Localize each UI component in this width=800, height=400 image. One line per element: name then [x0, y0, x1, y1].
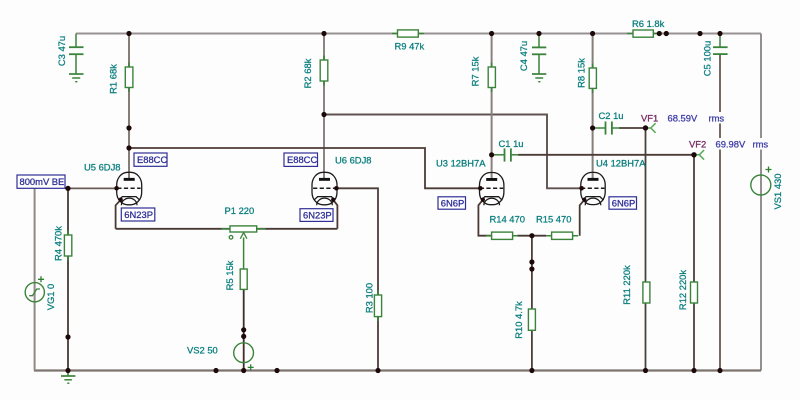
- resistor R3: [374, 291, 381, 322]
- wire cathode bus U5 side to P1: [116, 228, 230, 230]
- junction R6 right a: [657, 31, 662, 36]
- pin U3 cathode: [481, 198, 485, 202]
- wire left column input (box to VG1 to bus): [34, 188, 36, 370]
- junction wiper column b: [241, 334, 246, 339]
- junction bus left of VS2: [213, 368, 218, 373]
- svg-text:rms: rms: [709, 113, 725, 124]
- junction C1 left: [489, 152, 494, 157]
- capacitor C1: [492, 148, 519, 161]
- junction R4/ground bus: [65, 368, 70, 373]
- junction R3/ground bus: [375, 368, 380, 373]
- boxed label 6N23P (U5): [121, 208, 155, 221]
- svg-text:C5 100u: C5 100u: [702, 41, 713, 76]
- svg-text:R8 15k: R8 15k: [576, 58, 587, 88]
- junction bus right of VS2: [274, 368, 279, 373]
- pin U5 cathode: [119, 198, 123, 202]
- junction R1 column b (to U3 grid wire): [126, 145, 131, 150]
- wire U5 anode to U3 grid (y=148 route): [129, 148, 480, 188]
- wire top supply bus: [76, 33, 761, 35]
- wire C2 output to VF1 node: [619, 127, 646, 129]
- wire C1 output to VF2 node: [518, 154, 694, 156]
- resistor R11: [643, 282, 650, 303]
- svg-text:R3 100: R3 100: [364, 283, 375, 313]
- junction U6 anode tap: [321, 112, 326, 117]
- svg-text:rms: rms: [753, 139, 769, 150]
- resistor R4: [64, 231, 71, 261]
- pin U3 grid: [478, 186, 483, 191]
- svg-text:VG1 0: VG1 0: [45, 284, 56, 311]
- junction R1 column a: [126, 125, 131, 130]
- pin U4 grid: [579, 186, 584, 191]
- reading rms (VF2): [751, 138, 771, 150]
- wire U5 grid feed from input node: [65, 187, 117, 189]
- capacitor C5: [713, 34, 728, 55]
- svg-text:U4 12BH7A: U4 12BH7A: [596, 158, 646, 169]
- triode U6: [312, 172, 337, 205]
- pin U6 grid: [334, 186, 339, 191]
- junction bus/R7: [489, 31, 494, 36]
- svg-text:R15 470: R15 470: [536, 214, 571, 225]
- junction C5/ground bus: [717, 368, 722, 373]
- svg-text:C4 47u: C4 47u: [518, 41, 529, 71]
- source VS2: [234, 343, 254, 371]
- wire P1 to U6 cathode drop: [257, 228, 338, 230]
- junction R10/ground bus: [529, 368, 534, 373]
- capacitor C3: [69, 34, 84, 74]
- boxed label E88CC (U5): [134, 153, 167, 166]
- junction bus/R1: [126, 31, 131, 36]
- boxed label 6N23P (U6): [300, 209, 333, 222]
- wire U6 anode to U4 grid (y=114.5 route): [324, 115, 581, 189]
- svg-text:6N6P: 6N6P: [441, 197, 464, 208]
- svg-text:6N6P: 6N6P: [612, 197, 635, 208]
- source VG1: [25, 276, 44, 302]
- probe VF2: [694, 150, 704, 160]
- junction bus/C4: [536, 31, 541, 36]
- potentiometer P1: [222, 226, 266, 269]
- svg-text:U5 6DJ8: U5 6DJ8: [84, 162, 120, 173]
- resistor R1: [125, 63, 133, 93]
- triode U3: [480, 173, 504, 206]
- svg-text:R4 470k: R4 470k: [53, 226, 64, 261]
- node VF1: [643, 125, 648, 130]
- resistor R6: [627, 30, 659, 37]
- svg-text:U6 6DJ8: U6 6DJ8: [335, 155, 371, 166]
- resistor R2: [320, 56, 328, 86]
- svg-text:E88CC: E88CC: [287, 154, 317, 165]
- svg-text:R2 68k: R2 68k: [302, 58, 313, 88]
- svg-text:P1 220: P1 220: [225, 205, 255, 216]
- wire P1 wiper / R5 / VS2 column to ground bus: [243, 289, 245, 370]
- wire VF1 node through R11 to ground bus: [645, 128, 647, 371]
- svg-text:VF2: VF2: [689, 139, 706, 150]
- pin U4 cathode: [582, 198, 586, 202]
- junction bus/C5: [717, 31, 722, 36]
- svg-text:C1 1u: C1 1u: [499, 138, 524, 149]
- junction R6 right b: [664, 31, 669, 36]
- svg-text:VF1: VF1: [641, 113, 658, 124]
- wire R2 column (bus to U6 anode): [323, 34, 325, 180]
- svg-text:R14 470: R14 470: [490, 214, 525, 225]
- triode U5: [117, 172, 142, 205]
- junction R11/ground bus: [643, 368, 648, 373]
- junction tail column a: [529, 259, 534, 264]
- svg-text:U3 12BH7A: U3 12BH7A: [436, 158, 486, 169]
- junction R4 lower: [65, 334, 70, 339]
- junction R14/R15 tail: [529, 233, 534, 238]
- svg-text:6N23P: 6N23P: [303, 209, 332, 220]
- svg-text:E88CC: E88CC: [137, 154, 167, 165]
- svg-text:R9 47k: R9 47k: [395, 41, 425, 52]
- svg-text:R1 68k: R1 68k: [108, 64, 119, 94]
- junction input node: [65, 186, 70, 191]
- resistor R7: [488, 63, 495, 93]
- svg-text:C2 1u: C2 1u: [599, 110, 624, 121]
- resistor R12: [691, 282, 698, 303]
- pin U6 cathode: [331, 198, 335, 202]
- pin U5 grid: [114, 186, 119, 191]
- resistor R15: [546, 232, 578, 239]
- boxed label 6N6P (U3): [438, 197, 466, 209]
- ground at bottom bus: [61, 371, 75, 384]
- source VS1: [751, 167, 772, 196]
- wire R15 to U4 cathode drop: [580, 200, 585, 236]
- svg-text:VS1 430: VS1 430: [772, 174, 783, 210]
- resistor R8: [589, 64, 596, 94]
- junction VS2/ground bus: [241, 368, 246, 373]
- junction bus mid: [697, 31, 702, 36]
- wire R8 column (bus to U4 anode, C2 tap): [592, 34, 594, 180]
- svg-text:R11 220k: R11 220k: [621, 265, 632, 305]
- resistor R5: [240, 269, 247, 289]
- wire VF2 node through R12 to ground bus: [693, 155, 695, 371]
- svg-text:VS2 50: VS2 50: [187, 345, 218, 356]
- wire R7 column (bus to U3 anode, C1 tap): [491, 34, 493, 180]
- junction R12/ground bus: [691, 368, 696, 373]
- junction tail column b: [529, 266, 534, 271]
- wire R4 column (input node to ground bus): [67, 188, 69, 370]
- wire bottom ground bus: [34, 369, 761, 371]
- junction bus/R2: [321, 31, 326, 36]
- svg-text:6N23P: 6N23P: [124, 209, 153, 220]
- capacitor C2: [593, 122, 620, 135]
- triode U4: [581, 172, 605, 205]
- ground under C3: [69, 74, 84, 82]
- wire U6 grid to R3 column: [336, 188, 378, 370]
- boxed label 6N6P (U4): [609, 197, 637, 209]
- reading 69.98V: [714, 138, 749, 150]
- svg-text:R5 15k: R5 15k: [224, 260, 235, 290]
- svg-text:R10 4.7k: R10 4.7k: [513, 301, 524, 339]
- wire right edge column (VS1 net): [760, 34, 762, 371]
- reading rms (VF1): [707, 112, 730, 124]
- resistor R9: [392, 30, 424, 37]
- reading 68.59V: [666, 112, 708, 124]
- svg-text:68.59V: 68.59V: [668, 113, 698, 124]
- junction C2 left: [590, 125, 595, 130]
- wire R1 column (bus to U5 anode): [128, 34, 130, 180]
- wire tail node through R10 to ground bus: [531, 236, 533, 371]
- wire C5 column down to ground bus: [719, 54, 721, 370]
- probe VF1: [646, 123, 656, 133]
- resistor R14: [486, 232, 518, 239]
- boxed label E88CC (U6): [284, 153, 318, 166]
- svg-text:R7 15k: R7 15k: [470, 56, 481, 86]
- wire U6 cathode drop: [333, 200, 337, 229]
- boxed label 800mV BE: [17, 175, 65, 188]
- node VF2: [691, 152, 696, 157]
- resistor R10: [528, 309, 535, 330]
- wire U3 cathode drop to R14: [478, 200, 492, 236]
- svg-text:R12 220k: R12 220k: [677, 270, 688, 310]
- wire R14 to center tail node: [517, 235, 546, 237]
- svg-text:R6 1.8k: R6 1.8k: [632, 18, 665, 29]
- ground under C4: [532, 74, 546, 82]
- svg-text:C3 47u: C3 47u: [56, 36, 67, 66]
- junction wiper column a: [241, 327, 246, 332]
- svg-text:800mV BE: 800mV BE: [20, 176, 65, 187]
- svg-text:69.98V: 69.98V: [716, 139, 746, 150]
- junction bus/R8: [590, 31, 595, 36]
- wire U5 cathode drop: [116, 200, 121, 229]
- capacitor C4: [532, 34, 546, 74]
